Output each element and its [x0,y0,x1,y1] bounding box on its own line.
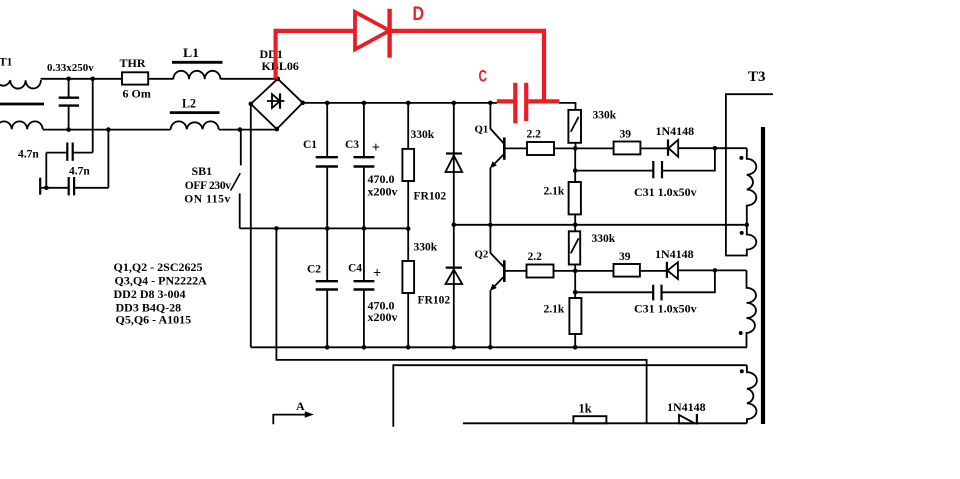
capacitor C4 plates [354,280,375,282]
svg-text:C1: C1 [303,139,317,151]
node bottom rail at FR102 [452,345,457,350]
diode 1N4148 upper cathode bar [667,139,669,155]
svg-text:6 Om: 6 Om [123,87,151,101]
FR102 upper column wire [453,103,455,347]
svg-text:C3: C3 [345,139,359,151]
red wire capacitor C left stub [497,99,514,103]
DD1 inner diode lead [267,100,285,102]
transistor Q1 base bar [503,137,506,159]
diode FR102 lower cathode bar [446,267,462,269]
T3 winding 4 polarity dot [740,369,744,373]
resistor 330k slashed lower body [569,231,580,264]
svg-text:0.33x250v: 0.33x250v [47,62,94,74]
capacitor C3 plates [354,156,375,158]
capacitor C31 lower plates [660,285,662,301]
red wire capacitor C right stub [528,99,559,103]
resistor 2.2 upper [527,142,554,155]
node feedback at C31 lower [713,268,718,273]
node mid rail at Q1/Q2 [488,223,492,227]
wire THR to L1 [148,78,173,80]
wire top rail left part [303,102,497,104]
svg-text:THR: THR [120,56,146,70]
resistor 330k slashed upper body [568,110,581,143]
resistor 1k body [573,416,606,423]
svg-text:T3: T3 [748,69,766,85]
resistor 330k upper body [402,149,414,181]
node bridge left vertex [249,102,254,107]
wire 39 lower to 1N4148 lower [640,270,667,272]
svg-text:1N4148: 1N4148 [656,124,695,138]
svg-text:L2: L2 [182,96,196,110]
svg-text:KBL06: KBL06 [262,59,299,73]
node bridge top vertex [276,77,281,82]
switch SB1 lever [231,173,241,190]
node bottom rail at Q2 emitter [488,345,493,350]
svg-text:D: D [413,4,425,25]
inductor L2 core bar [170,111,220,114]
capacitor C1 plates [316,156,338,158]
transformer T1 secondary winding [0,121,43,129]
wire 2.1k column upper [574,148,576,182]
DD1 inner diode cathode bar [279,93,281,108]
capacitor C2 bottom lead [326,290,328,348]
svg-text:4.7n: 4.7n [69,165,90,177]
capacitor C2 plates [316,280,338,282]
transformer T3 core [761,127,765,424]
node junction L2 wire at SB1 [238,127,243,132]
node top rail 330k [406,101,411,106]
terminal stub at 4.7n junction [40,187,46,189]
svg-text:39: 39 [620,128,632,140]
wire bottom section [463,422,747,424]
wire 4.7n left vertical [45,153,47,188]
inductor L2 winding [171,121,219,129]
svg-text:Q1: Q1 [475,124,489,136]
wire C31 upper right leg [662,148,715,170]
330k slashed upper slash [571,117,579,132]
node mid rail at C4 [362,226,367,231]
capacitor 0.33x250v lead top [68,79,70,98]
svg-text:C: C [479,67,488,86]
node bottom rail at 2.1k [573,345,578,350]
node top rail C3 [362,101,367,106]
svg-text:+: + [373,265,381,281]
diode 1N4148 bottom triangle [679,415,695,423]
wire Q1 emitter to mid rail and Q2 collector [490,168,504,268]
wire x277 down to lower section [276,228,646,423]
resistor 330k lower lead [407,293,409,347]
svg-text:C31 1.0x50v: C31 1.0x50v [634,185,697,199]
wire slashed resistor to base line [575,143,577,149]
wire 2.1k to mid rail [574,214,576,231]
wire L2 to bridge bottom vertex [219,129,277,131]
capacitor 4.7n second plates [68,177,70,195]
svg-text:C4: C4 [348,263,362,275]
wire C31 upper left leg [575,170,653,172]
transformer T1 core [0,103,44,106]
red diode D triangle [355,12,390,50]
DD1 inner diode triangle [272,94,280,108]
wire C31 lower left leg [575,291,653,293]
svg-text:Q3,Q4 - PN2222A: Q3,Q4 - PN2222A [115,274,208,288]
svg-text:ON 115v: ON 115v [184,193,230,205]
node mid rail at x277 [274,226,279,231]
svg-text:T1: T1 [0,57,13,69]
wire mid rail right [454,224,747,226]
node junction 4.7n caps [44,186,49,191]
node base line 2 at 2.1k column [573,269,578,274]
capacitor C3 bottom lead [363,167,365,229]
T3 winding 2 polarity dot [740,231,744,235]
T3 winding 1 polarity dot [739,156,743,160]
wire top line left [41,78,122,80]
svg-text:x200v: x200v [368,310,398,324]
svg-text:Q5,Q6 - A1015: Q5,Q6 - A1015 [116,313,192,327]
node bottom rail at C4 [362,345,367,350]
svg-text:Q2: Q2 [475,248,489,260]
resistor 2.1k upper body [569,182,581,214]
node mid rail right start [452,223,457,228]
svg-text:330k: 330k [592,233,616,245]
resistor 39 upper body [614,142,641,155]
diode 1N4148 bottom cathode bar [696,414,698,425]
svg-text:2.1k: 2.1k [544,303,565,315]
svg-text:FR102: FR102 [418,294,451,306]
switch SB1 upper contact [240,130,242,166]
wire Q1 base to 2.2 [504,147,527,149]
wire 2.2 to 39 upper base line [554,147,614,149]
diode 1N4148 upper triangle [669,140,679,157]
wire bridge minus down [250,104,252,347]
capacitor C3 top lead [363,103,365,157]
wire 4.7n branch from top wire [92,79,94,153]
svg-text:L1: L1 [183,46,199,60]
transistor Q2 emitter arrowhead [490,284,497,291]
svg-text:SB1: SB1 [192,164,213,178]
node bridge bottom vertex [275,127,280,132]
node A arrow [273,415,306,425]
switch SB1 lower contact [239,193,241,228]
node C31 lower wire at 2.1k column [573,290,578,295]
svg-text:C2: C2 [307,263,321,275]
capacitor 0.33x250v lead bottom [68,106,70,130]
node bridge right vertex [300,101,305,106]
diode 1N4148 lower triangle [667,262,678,279]
wire 4.7n second cap leads [46,187,68,189]
capacitor C31 upper plates [661,161,663,178]
node top rail C1 [325,101,330,106]
transistor Q1 emitter lead [493,154,505,166]
node top rail FR102 [452,101,457,106]
red wire bridge top to diode D [276,31,355,79]
svg-text:2.1k: 2.1k [544,186,565,198]
wire lower box line [393,365,747,427]
wire mid rail left [240,227,409,229]
svg-text:+: + [372,140,380,156]
svg-text:1N4148: 1N4148 [667,400,706,414]
330k slashed lower slash [571,238,579,253]
node junction bottom wire at X-cap [66,127,71,132]
transformer T3 winding 3 [747,270,756,347]
node bottom rail at C2 [325,345,330,350]
transformer T3 winding 2 [726,94,773,255]
svg-text:4.7n: 4.7n [18,149,39,161]
node base line at 330k slashed [573,146,578,151]
capacitor C2 top lead [326,228,328,281]
wire 1N4148 lower to T3 winding 3 [678,269,747,271]
node C31 wire at 2.1k column [573,168,578,173]
svg-text:Q1,Q2 - 2SC2625: Q1,Q2 - 2SC2625 [114,260,203,274]
resistor THR [122,72,148,84]
diode 1N4148 lower cathode bar [666,262,668,278]
svg-text:A: A [296,399,305,413]
svg-text:1N4148: 1N4148 [655,247,694,261]
transistor Q2 base bar [503,260,506,282]
wire bottom line left [43,129,171,131]
wire L1 to bridge top vertex [220,78,277,80]
resistor 2.1k lower body [569,298,581,334]
T3 winding 3 polarity dot [739,331,743,335]
svg-text:C31 1.0x50v: C31 1.0x50v [634,302,697,316]
capacitor C4 top lead [363,228,365,281]
wire 4.7n first cap leads [73,152,93,154]
resistor 39 lower body [614,264,640,277]
bridge rectifier DD1 KBL06 diamond [251,79,303,129]
diode FR102 upper cathode bar [446,152,462,154]
node junction top wire at 4.7n branch [90,77,95,82]
wire 1N4148 to T3 winding 1 [678,147,747,149]
wire Q2 emitter to bottom rail [489,291,491,348]
capacitor C4 bottom lead [363,290,365,348]
resistor 2.2 lower [527,265,554,278]
svg-text:x200v: x200v [368,184,398,198]
node A arrowhead [305,411,314,418]
diode FR102 upper triangle [446,156,463,173]
node mid rail at C2 [325,226,330,231]
inductor L1 core bar [172,61,223,64]
transistor Q1 collector lead [490,103,504,144]
inductor L1 winding [173,71,220,80]
wire top rail right stub [559,103,576,110]
transformer T3 winding 4 [747,365,757,423]
wire Q2 base to 2.2 lower [504,270,526,272]
node feedback at C31 upper [713,146,718,151]
red capacitor C plates [513,83,517,124]
wire 2.2 lower to 39 lower [554,270,614,272]
transistor Q2 emitter lead [493,276,505,288]
svg-text:39: 39 [619,251,631,263]
node mid rail at 2.1k column [573,223,578,228]
svg-text:2.2: 2.2 [527,128,542,140]
svg-text:330k: 330k [593,109,617,121]
wire slashed lower to base line 2 [574,265,576,299]
wire 2.1k lower to bottom rail [574,334,576,347]
resistor 330k upper leads [407,103,409,149]
wire 39 to 1N4148 upper [640,147,668,149]
node bottom rail at 330k [406,345,411,350]
svg-text:330k: 330k [411,129,435,141]
svg-text:330k: 330k [414,242,438,254]
parts list text block [114,260,208,326]
transistor Q1 emitter arrowhead [490,161,497,168]
svg-text:1k: 1k [579,402,592,416]
wire C31 lower right leg [662,270,715,292]
red diode D cathode bar [387,9,391,58]
svg-text:OFF 230v: OFF 230v [185,180,231,192]
capacitor 0.33x250v plates [59,96,79,98]
node mid rail end at 330k [406,226,411,231]
transformer T1 primary winding [0,80,41,89]
red wire diode D to capacitor C branch [390,31,544,102]
node mid rail at T3 winding junction [745,223,749,227]
node junction top wire at X-cap [66,77,71,82]
svg-text:DD2 D8 3-004: DD2 D8 3-004 [114,287,186,301]
capacitor C1 top lead [326,103,328,157]
node top rail Q1 collector [488,101,493,106]
diode FR102 lower triangle [446,270,463,285]
resistor 330k lower body [402,261,414,293]
svg-text:2.2: 2.2 [528,251,543,263]
capacitor 4.7n first plates [66,143,68,161]
node junction bottom wire at 4.7n branch [106,127,111,132]
svg-text:FR102: FR102 [414,191,447,203]
wire bottom rail [251,346,747,348]
transformer T3 winding 1 [747,148,757,225]
wire 4.7n branch to bottom wire [107,130,109,188]
capacitor C1 bottom lead [326,167,328,229]
